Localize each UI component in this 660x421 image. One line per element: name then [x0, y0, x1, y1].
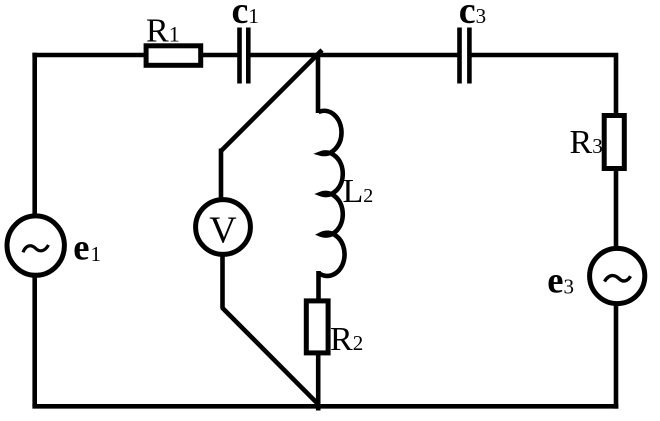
wire: R2 to bottom node B	[316, 355, 321, 411]
wire: diagonal from node A to voltmeter top lead	[221, 50, 322, 151]
wire: R3 to e3	[614, 171, 619, 249]
resistor R1	[146, 46, 201, 66]
wire: diagonal from voltmeter to bottom node B	[222, 308, 318, 405]
wire: voltmeter bottom lead	[220, 256, 225, 309]
wire: voltmeter top lead	[219, 149, 224, 200]
resistor R3	[604, 116, 624, 169]
svg-text:c1: c1	[232, 0, 259, 32]
wire: e1 to bottom left corner	[32, 277, 37, 406]
svg-text:L2: L2	[343, 173, 374, 210]
svg-text:e3: e3	[547, 259, 574, 300]
svg-text:V: V	[209, 210, 237, 252]
node A: top junction stub	[316, 53, 321, 113]
capacitor C3 right plate	[467, 28, 472, 84]
wire: top horizontal, e1 corner to R1	[32, 53, 146, 58]
wire: C3 to top right corner	[471, 53, 618, 115]
inductor L2	[319, 111, 345, 276]
e1 sine symbol	[23, 245, 49, 252]
voltmeter V	[196, 200, 251, 255]
capacitor C1 left plate	[237, 28, 242, 84]
svg-text:R3: R3	[570, 124, 603, 161]
svg-text:R2: R2	[330, 321, 363, 358]
wire: e3 to bottom right corner	[614, 303, 619, 409]
e3 sine symbol	[605, 276, 631, 282]
svg-text:c3: c3	[459, 0, 486, 32]
wire: C1 through node A to C3	[250, 53, 458, 58]
resistor R2	[306, 301, 328, 353]
svg-text:e1: e1	[73, 226, 101, 267]
wire: R1 to C1	[201, 53, 239, 58]
capacitor C3 left plate	[457, 28, 462, 84]
wire: L2 to R2	[316, 271, 321, 300]
wire: left vertical, top corner to e1	[32, 53, 37, 216]
wire: bottom horizontal	[32, 404, 618, 409]
AC source e1	[7, 216, 64, 275]
svg-text:R1: R1	[146, 13, 180, 50]
AC source e3	[590, 248, 645, 303]
capacitor C1 right plate	[246, 28, 251, 84]
